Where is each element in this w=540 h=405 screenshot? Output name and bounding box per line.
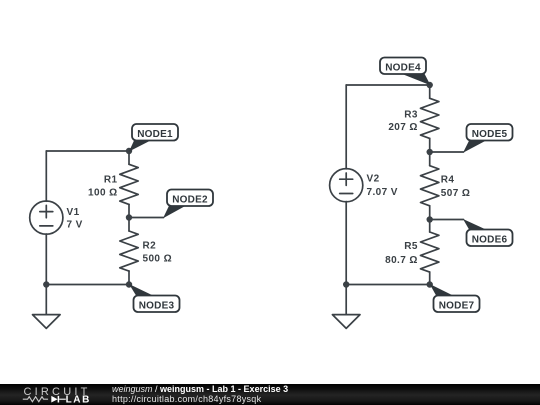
wire xyxy=(430,151,464,153)
resistor R3 xyxy=(421,98,439,138)
node NODE5 xyxy=(463,124,513,153)
svg-text:R5: R5 xyxy=(404,241,418,252)
svg-text:LAB: LAB xyxy=(66,395,91,405)
svg-text:207 Ω: 207 Ω xyxy=(388,122,417,133)
junction xyxy=(427,216,433,222)
junction xyxy=(126,281,132,287)
wire xyxy=(429,272,431,285)
svg-text:NODE7: NODE7 xyxy=(439,301,475,312)
wire xyxy=(128,271,130,285)
junction xyxy=(343,281,349,287)
svg-text:7.07 V: 7.07 V xyxy=(367,187,398,198)
resistor R4 xyxy=(421,166,439,206)
wire xyxy=(346,84,430,86)
wire xyxy=(129,217,164,219)
wire xyxy=(429,152,431,166)
svg-text:80.7 Ω: 80.7 Ω xyxy=(385,255,418,266)
CircuitLab logo xyxy=(0,384,110,405)
svg-text:R3: R3 xyxy=(404,110,418,121)
footer title text xyxy=(112,385,288,394)
wire xyxy=(345,85,347,169)
junction xyxy=(427,149,433,155)
svg-text:507 Ω: 507 Ω xyxy=(441,188,470,199)
svg-text:V2: V2 xyxy=(367,174,380,185)
wire xyxy=(45,234,47,285)
svg-text:NODE3: NODE3 xyxy=(139,301,175,312)
wire xyxy=(45,151,47,201)
footer bar xyxy=(0,384,540,405)
svg-text:V1: V1 xyxy=(67,207,80,218)
svg-text:R2: R2 xyxy=(143,241,157,252)
svg-text:R4: R4 xyxy=(441,175,455,186)
wire xyxy=(429,85,431,98)
svg-text:NODE5: NODE5 xyxy=(472,129,508,140)
node NODE6 xyxy=(463,219,513,246)
svg-text:NODE6: NODE6 xyxy=(472,235,508,246)
wire xyxy=(346,284,430,286)
voltage source V1 xyxy=(30,201,63,234)
wire xyxy=(128,204,130,217)
wire xyxy=(429,206,431,220)
svg-text:100 Ω: 100 Ω xyxy=(88,188,117,199)
wire xyxy=(46,150,129,152)
wire xyxy=(430,219,464,221)
svg-text:500 Ω: 500 Ω xyxy=(143,254,172,265)
junction xyxy=(126,214,132,220)
svg-text:NODE1: NODE1 xyxy=(137,129,173,140)
wire xyxy=(46,284,129,286)
junction xyxy=(43,281,49,287)
svg-text:R1: R1 xyxy=(104,175,118,186)
wire xyxy=(128,151,130,164)
svg-text:NODE4: NODE4 xyxy=(385,63,421,74)
wire xyxy=(128,218,130,232)
junction xyxy=(427,82,433,88)
resistor R2 xyxy=(120,231,138,271)
svg-text:NODE2: NODE2 xyxy=(172,195,208,206)
wire xyxy=(429,220,431,233)
node NODE1 xyxy=(129,124,178,152)
ground xyxy=(332,285,360,329)
svg-text:7 V: 7 V xyxy=(67,220,83,231)
node NODE3 xyxy=(129,284,180,312)
voltage source V2 xyxy=(330,169,363,202)
node NODE2 xyxy=(163,190,213,219)
wire xyxy=(345,202,347,285)
junction xyxy=(427,281,433,287)
resistor R5 xyxy=(421,232,439,272)
resistor R1 xyxy=(120,164,138,204)
junction xyxy=(126,148,132,154)
ground xyxy=(33,285,61,329)
wire xyxy=(429,138,431,152)
node NODE4 xyxy=(380,58,431,86)
node NODE7 xyxy=(430,284,480,312)
